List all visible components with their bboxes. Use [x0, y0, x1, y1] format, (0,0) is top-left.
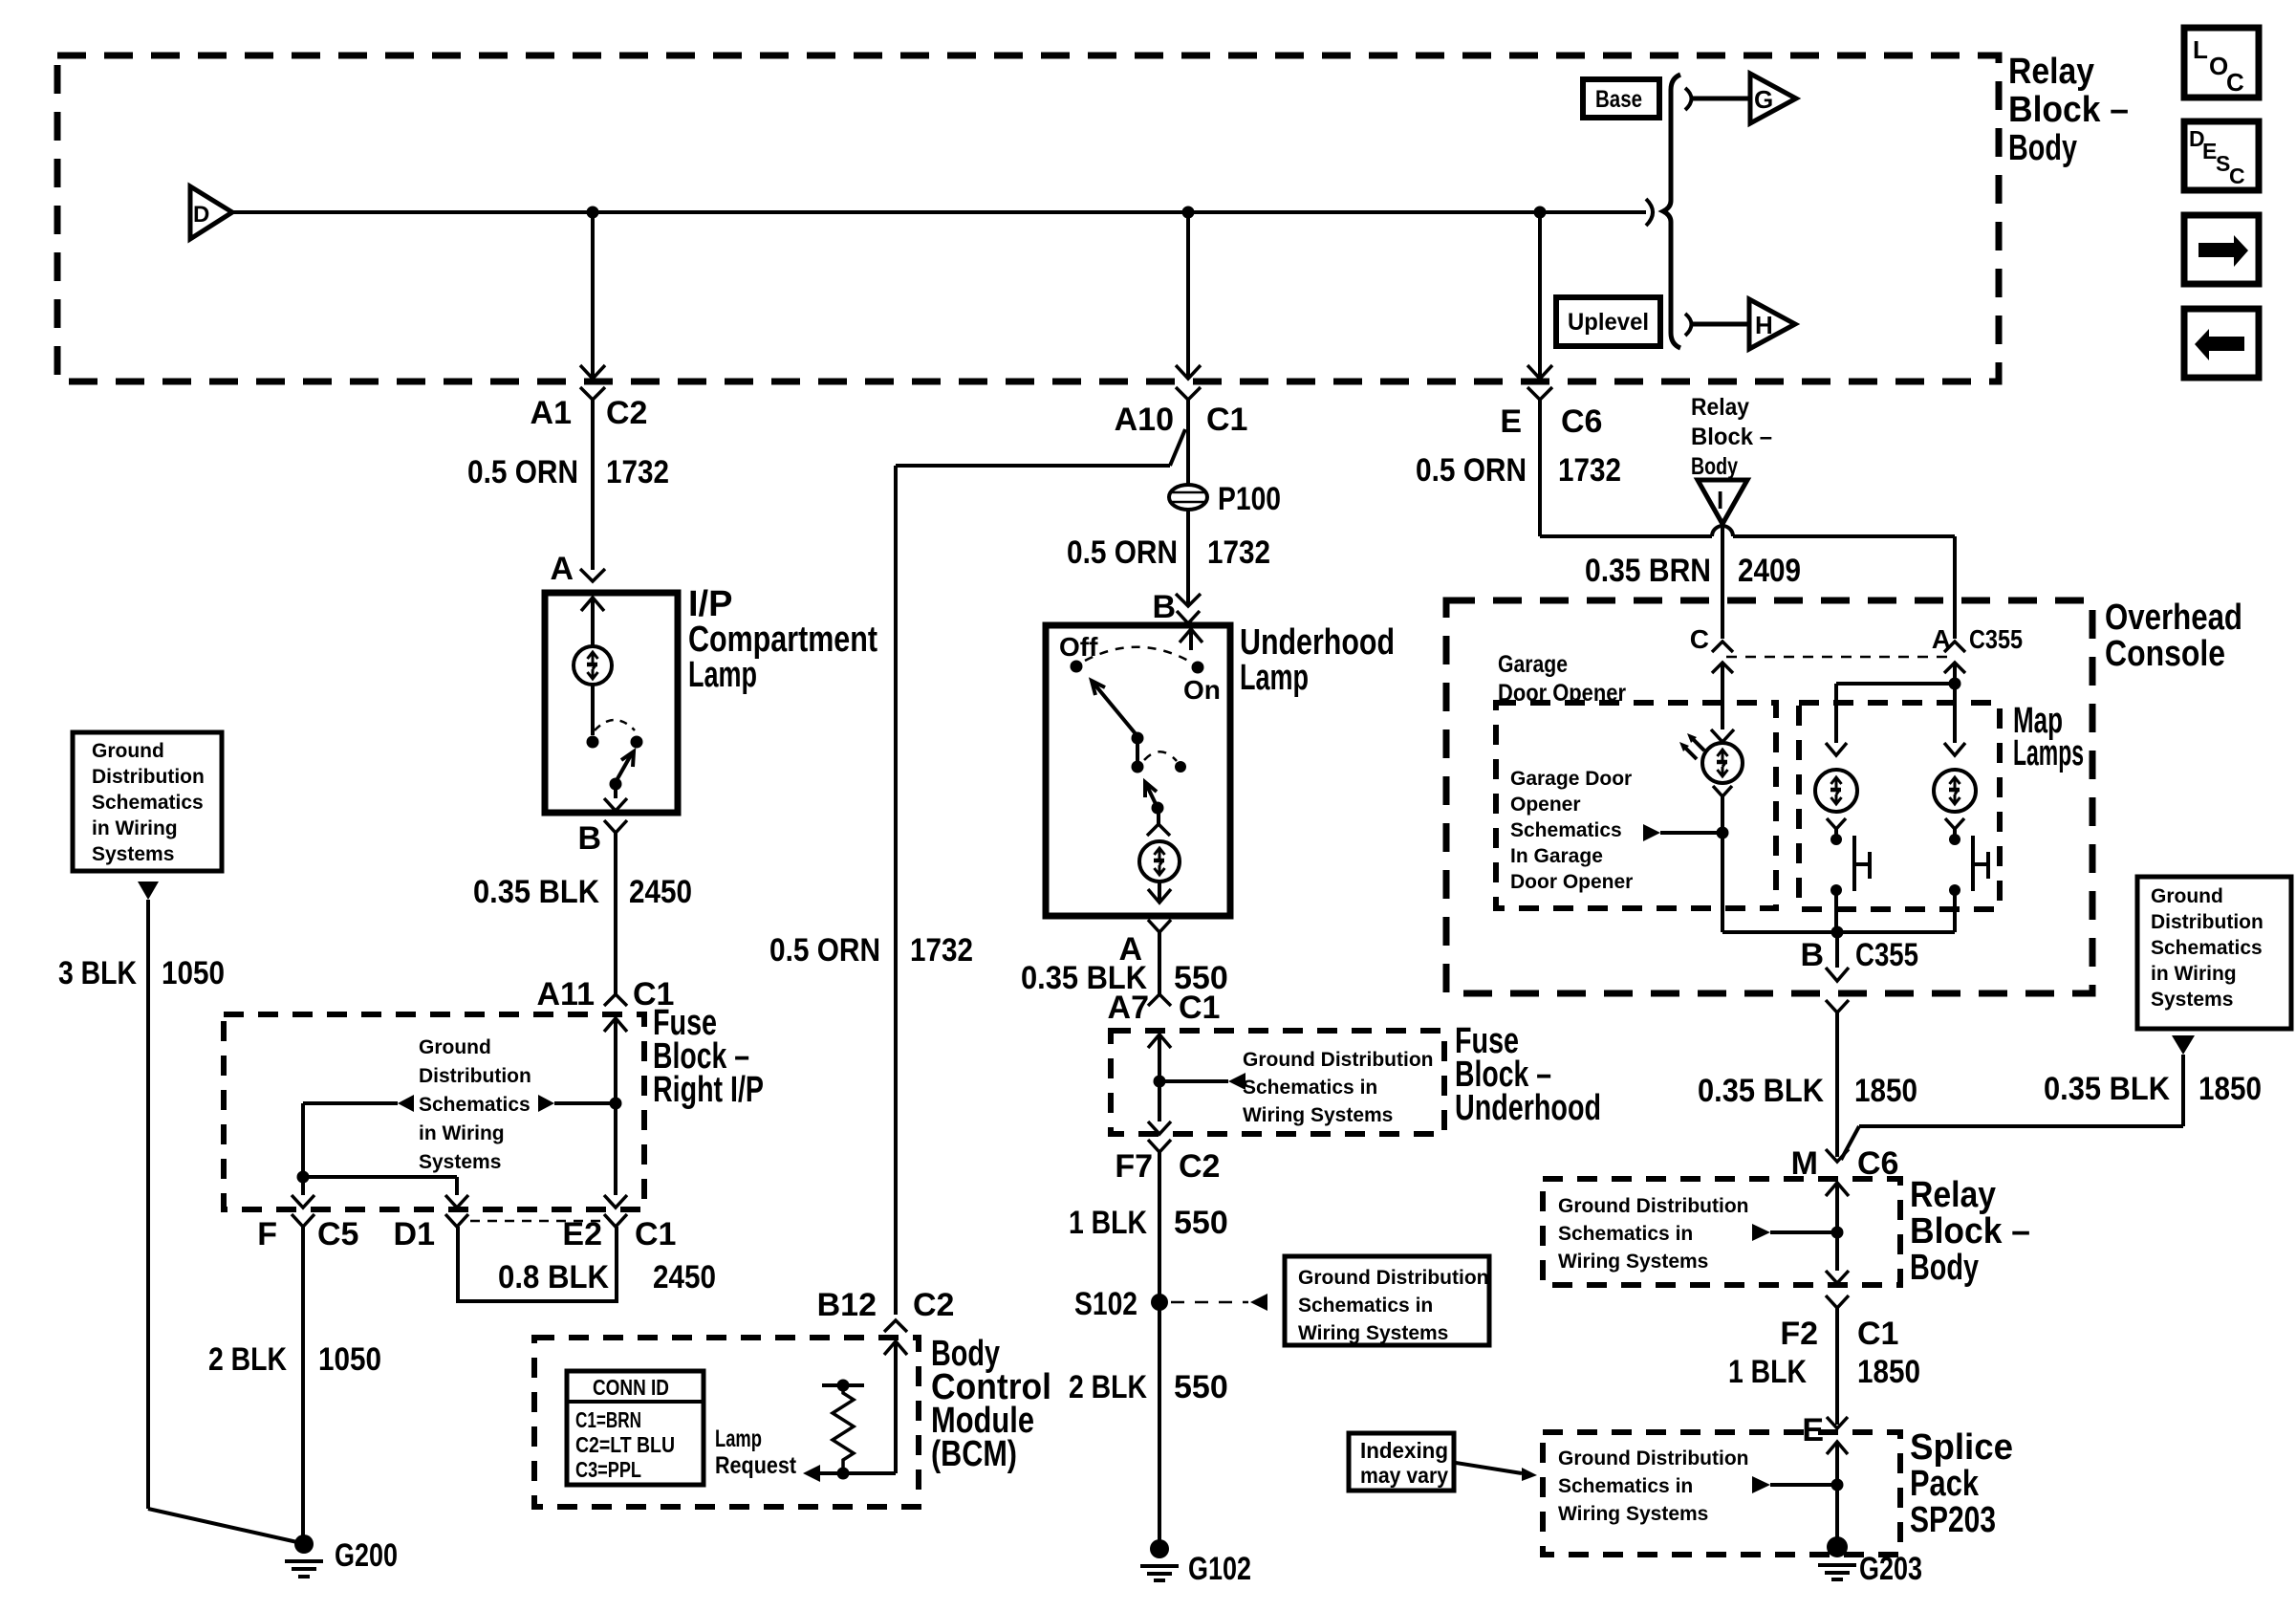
wire 0.35 BLK 550 — [1021, 932, 1228, 996]
connector A11/C1 — [537, 976, 675, 1032]
svg-text:Console: Console — [2105, 634, 2225, 674]
svg-text:C2: C2 — [913, 1287, 954, 1323]
label Underhood Lamp — [1240, 622, 1395, 698]
junction dot A10 — [1182, 207, 1195, 219]
label Splice Pack SP203 — [1910, 1427, 2013, 1540]
wire 0.5 ORN 1732 (underhood) — [1067, 508, 1270, 606]
nav arrow left box — [2184, 309, 2259, 378]
arrow indexing to splice pack — [1456, 1463, 1537, 1481]
housing symbol left — [1854, 836, 1870, 891]
connector B/C355 — [1800, 932, 1918, 1012]
ground G200 — [285, 1535, 398, 1577]
svg-text:Wiring Systems: Wiring Systems — [1298, 1322, 1448, 1344]
DESC nav box — [2184, 121, 2259, 190]
switch underhood off/on — [1059, 632, 1221, 815]
note box ground distribution (S102) — [1285, 1256, 1489, 1345]
label Fuse Block Underhood — [1455, 1021, 1601, 1128]
wire M inside relay block — [1826, 1183, 1849, 1283]
svg-text:2 BLK: 2 BLK — [1069, 1369, 1147, 1405]
svg-text:Lamps: Lamps — [2013, 733, 2084, 773]
lamp garage door opener — [1679, 729, 1743, 932]
svg-text:Ground: Ground — [419, 1036, 491, 1058]
label Relay Block Body (I) — [1691, 394, 1772, 480]
svg-text:3 BLK: 3 BLK — [58, 955, 137, 991]
node I triangle — [1698, 480, 1747, 524]
svg-text:2409: 2409 — [1738, 553, 1801, 589]
pointer splice pack note — [1752, 1476, 1844, 1493]
svg-text:A7: A7 — [1108, 990, 1149, 1026]
lamp map left — [1815, 743, 1857, 845]
svg-text:Lamp: Lamp — [688, 655, 757, 695]
node D triangle — [190, 186, 232, 239]
svg-text:C: C — [2229, 163, 2245, 188]
svg-text:C355: C355 — [1969, 624, 2023, 654]
svg-text:Distribution: Distribution — [2151, 911, 2264, 933]
svg-text:Systems: Systems — [92, 843, 174, 865]
fuse block underhood dashed box — [1111, 1031, 1444, 1134]
svg-text:C1: C1 — [635, 1216, 676, 1252]
svg-text:Garage Door: Garage Door — [1510, 768, 1632, 790]
note box ground distribution (left) — [73, 732, 222, 900]
junction dot E — [1534, 207, 1547, 219]
splice S102 — [1074, 1286, 1267, 1322]
connector A of IP lamp — [550, 551, 605, 587]
connector B of IP lamp — [577, 820, 627, 857]
connector A7/C1 — [1108, 990, 1221, 1048]
svg-text:Schematics in: Schematics in — [1558, 1223, 1693, 1245]
label Relay Block Body top right — [2008, 52, 2129, 168]
svg-text:Schematics in: Schematics in — [1558, 1475, 1693, 1497]
svg-text:1050: 1050 — [318, 1341, 381, 1378]
note ground distribution (splice pack) — [1558, 1448, 1748, 1525]
connector A10/C1 — [1115, 387, 1248, 438]
svg-text:G203: G203 — [1859, 1551, 1922, 1587]
svg-text:1732: 1732 — [606, 454, 669, 490]
connector B12/C2 — [817, 1287, 955, 1355]
connector A (C355) — [1932, 624, 2023, 684]
pin B entry arrow — [1180, 629, 1202, 650]
note garage door opener schematics — [1510, 768, 1633, 893]
connector B underhood — [1152, 589, 1201, 625]
label Relay Block Body (lower) — [1910, 1175, 2030, 1288]
map lamps dashed box — [1799, 703, 2000, 909]
ground G203 — [1818, 1536, 1922, 1587]
svg-text:B: B — [1152, 589, 1176, 625]
svg-text:in Wiring: in Wiring — [92, 817, 178, 839]
svg-text:Wiring Systems: Wiring Systems — [1558, 1251, 1708, 1273]
wire map left ground — [1830, 884, 1842, 932]
grommet P100 — [1169, 481, 1281, 517]
svg-text:Right I/P: Right I/P — [653, 1070, 764, 1110]
svg-text:Pack: Pack — [1910, 1464, 1980, 1504]
wire main bus — [232, 210, 1646, 214]
label I/P Compartment Lamp — [688, 584, 877, 695]
underhood lamp box — [1046, 625, 1230, 916]
wire A10 to P100 — [1186, 400, 1190, 486]
connector F2/C1 — [1780, 1295, 1898, 1352]
svg-text:B: B — [577, 820, 601, 857]
svg-text:C: C — [1690, 624, 1709, 654]
wire inside fuse block underhood — [1148, 1034, 1171, 1134]
svg-text:C2: C2 — [1179, 1148, 1220, 1185]
svg-text:B12: B12 — [817, 1287, 877, 1323]
svg-text:P100: P100 — [1218, 481, 1281, 517]
svg-text:Wiring Systems: Wiring Systems — [1243, 1104, 1393, 1126]
resistor lamp request — [822, 1380, 864, 1480]
wire D1 inside fuse block — [303, 1177, 468, 1208]
wire 1 BLK 1850 — [1728, 1308, 1920, 1425]
svg-text:Opener: Opener — [1510, 794, 1581, 816]
svg-text:I/P: I/P — [688, 584, 732, 624]
svg-text:Distribution: Distribution — [92, 766, 205, 788]
svg-text:0.35 BLK: 0.35 BLK — [2044, 1071, 2170, 1107]
svg-text:1 BLK: 1 BLK — [1069, 1205, 1147, 1241]
connector F/C5 — [257, 1214, 358, 1252]
svg-text:0.35 BRN: 0.35 BRN — [1585, 553, 1711, 589]
label Body Control Module BCM — [931, 1334, 1051, 1474]
svg-text:Compartment: Compartment — [688, 620, 877, 660]
splice pack dashed box — [1543, 1432, 1900, 1555]
note ground distribution (relay block) — [1558, 1195, 1748, 1273]
svg-text:C3=PPL: C3=PPL — [575, 1457, 641, 1482]
svg-text:Body: Body — [2008, 128, 2077, 168]
wire 0.35 BLK 2450 — [473, 833, 692, 994]
svg-text:Door Opener: Door Opener — [1498, 680, 1626, 707]
svg-text:Relay: Relay — [2008, 52, 2094, 92]
svg-text:C5: C5 — [317, 1216, 358, 1252]
relay Base box — [1583, 79, 1659, 118]
svg-text:may vary: may vary — [1360, 1463, 1448, 1488]
svg-text:Door Opener: Door Opener — [1510, 871, 1633, 893]
note ground distribution (underhood box) — [1159, 1049, 1433, 1126]
svg-text:1732: 1732 — [1558, 452, 1621, 489]
svg-text:550: 550 — [1174, 1205, 1228, 1241]
wire A10 drop — [1176, 212, 1201, 379]
wire 0.35 BLK 1850 (right branch) — [1841, 1055, 2262, 1160]
svg-text:G: G — [1754, 85, 1773, 114]
svg-text:Systems: Systems — [2151, 989, 2233, 1011]
svg-text:0.35 BLK: 0.35 BLK — [473, 874, 599, 910]
svg-text:0.35 BLK: 0.35 BLK — [1698, 1073, 1824, 1109]
housing symbol right — [1973, 836, 1988, 891]
svg-text:0.5 ORN: 0.5 ORN — [1416, 452, 1527, 489]
svg-text:C1: C1 — [1206, 402, 1247, 438]
wire 0.5 ORN 1732 (E) — [1416, 400, 1621, 536]
connector A1/C2 — [531, 387, 648, 431]
wire lamp request to B12 — [803, 1341, 896, 1482]
svg-text:0.5 ORN: 0.5 ORN — [769, 932, 880, 969]
pointer right (right IP box) — [538, 1095, 616, 1112]
wire A11 inside fuse block — [604, 1018, 627, 1208]
wire F inside fuse block — [292, 1103, 314, 1208]
overhead console dashed box — [1446, 600, 2092, 993]
svg-text:C355: C355 — [1855, 937, 1918, 973]
svg-text:E: E — [1500, 403, 1522, 440]
svg-text:D: D — [193, 202, 209, 228]
svg-text:B: B — [1800, 937, 1824, 973]
svg-text:G200: G200 — [335, 1537, 398, 1574]
svg-text:Schematics in: Schematics in — [1298, 1295, 1433, 1317]
bus end hook — [1646, 199, 1653, 226]
svg-text:Underhood: Underhood — [1455, 1088, 1601, 1128]
switch IP — [587, 685, 643, 811]
relay block body lower dashed box — [1543, 1179, 1900, 1285]
svg-text:Ground Distribution: Ground Distribution — [1558, 1448, 1748, 1469]
svg-text:Lamp: Lamp — [715, 1426, 762, 1452]
connector E splice pack — [1802, 1412, 1848, 1448]
relay Uplevel box — [1556, 297, 1660, 346]
pointer garage door opener note — [1643, 824, 1722, 841]
svg-text:1850: 1850 — [2199, 1071, 2262, 1107]
connector C (C355) — [1690, 624, 1733, 729]
wire 3 BLK 1050 — [58, 900, 297, 1542]
svg-text:in Wiring: in Wiring — [419, 1122, 505, 1144]
brace — [1663, 75, 1680, 348]
svg-text:A: A — [550, 551, 574, 587]
svg-text:C1: C1 — [1179, 990, 1220, 1026]
svg-text:2450: 2450 — [629, 874, 692, 910]
nav arrow right box — [2184, 215, 2259, 284]
svg-text:Body: Body — [1910, 1248, 1979, 1288]
svg-text:1850: 1850 — [1857, 1354, 1920, 1390]
svg-text:Schematics: Schematics — [92, 792, 204, 814]
connector hook G — [1685, 88, 1692, 110]
connector face dashed D1-E2 — [470, 1220, 602, 1223]
svg-text:A1: A1 — [531, 395, 572, 431]
svg-text:Ground Distribution: Ground Distribution — [1298, 1267, 1488, 1289]
BCM dashed box — [534, 1338, 919, 1507]
svg-text:S102: S102 — [1074, 1286, 1137, 1322]
lamp map right — [1934, 743, 1976, 845]
junction dot A11 wire — [610, 1098, 622, 1110]
svg-text:H: H — [1755, 311, 1773, 339]
svg-text:C2=LT BLU: C2=LT BLU — [575, 1432, 675, 1457]
indexing may vary box — [1349, 1433, 1454, 1491]
junction dot A1 — [587, 207, 599, 219]
svg-text:2 BLK: 2 BLK — [208, 1341, 287, 1378]
svg-text:C: C — [2226, 68, 2244, 97]
svg-text:Request: Request — [715, 1452, 797, 1479]
wire 2 BLK 1050 — [208, 1227, 381, 1540]
connector F7/C2 — [1115, 1140, 1220, 1185]
connector D1 — [394, 1214, 468, 1252]
svg-text:Splice: Splice — [1910, 1427, 2013, 1468]
connector E/C6 — [1500, 387, 1602, 440]
svg-text:1050: 1050 — [162, 955, 225, 991]
wire console feed with hop — [1540, 526, 1955, 639]
wire 0.35 BLK 1850 (console ground) — [1698, 1012, 1917, 1157]
note box ground distribution (top right) — [2137, 877, 2291, 1055]
svg-text:F: F — [257, 1216, 277, 1252]
connector hook H — [1685, 314, 1692, 336]
svg-text:in Wiring: in Wiring — [2151, 963, 2237, 985]
wire map lamp feed — [1836, 678, 1961, 744]
lamp underhood bulb — [1139, 808, 1180, 903]
connector E2/C1 — [562, 1214, 676, 1252]
svg-text:Garage: Garage — [1498, 651, 1568, 678]
wire 2 BLK 550 — [1069, 1369, 1228, 1405]
svg-text:Block –: Block – — [2008, 90, 2129, 130]
pointer relay block note — [1752, 1224, 1844, 1241]
svg-text:Underhood: Underhood — [1240, 622, 1395, 663]
svg-text:Wiring Systems: Wiring Systems — [1558, 1503, 1708, 1525]
svg-text:Uplevel: Uplevel — [1568, 309, 1649, 336]
note ground distribution (right IP) — [419, 1036, 531, 1173]
svg-text:SP203: SP203 — [1910, 1500, 1996, 1540]
svg-text:Ground Distribution: Ground Distribution — [1243, 1049, 1433, 1071]
svg-text:C2: C2 — [606, 395, 647, 431]
svg-text:Lamp: Lamp — [1240, 658, 1309, 698]
pointer left (right IP box) — [303, 1095, 414, 1112]
svg-text:Schematics in: Schematics in — [1243, 1077, 1377, 1099]
connector face dashed C355 — [1726, 656, 1951, 659]
wire map right ground — [1949, 884, 1960, 932]
svg-text:CONN ID: CONN ID — [593, 1375, 669, 1400]
svg-text:Relay: Relay — [1691, 394, 1749, 421]
wire H stub — [1693, 322, 1748, 327]
connector M/C6 — [1791, 1145, 1899, 1196]
svg-text:1 BLK: 1 BLK — [1728, 1354, 1807, 1390]
relay block body outer dashed box — [57, 55, 1999, 381]
label Lamp Request — [715, 1426, 797, 1479]
svg-text:C1: C1 — [1857, 1316, 1898, 1352]
svg-text:L: L — [2193, 35, 2208, 64]
svg-text:Ground: Ground — [2151, 885, 2223, 907]
svg-text:In Garage: In Garage — [1510, 845, 1603, 867]
connector A underhood — [1118, 920, 1171, 968]
svg-text:Ground: Ground — [92, 740, 164, 762]
node G triangle — [1750, 74, 1796, 123]
wire G stub — [1693, 97, 1749, 101]
pin A entry arrow — [581, 598, 604, 646]
CONN ID table — [567, 1371, 704, 1485]
svg-text:C1=BRN: C1=BRN — [575, 1407, 641, 1432]
svg-text:I: I — [1717, 486, 1723, 514]
svg-text:Base: Base — [1595, 86, 1642, 113]
svg-text:C6: C6 — [1561, 403, 1602, 440]
svg-text:Schematics: Schematics — [1510, 819, 1622, 841]
svg-text:1732: 1732 — [1207, 534, 1270, 571]
IP compartment lamp box — [545, 593, 678, 813]
label Overhead Console — [2105, 598, 2242, 674]
wire splice pack — [1827, 1442, 1848, 1539]
label Fuse Block Right IP — [653, 1003, 764, 1110]
svg-text:0.5 ORN: 0.5 ORN — [467, 454, 578, 490]
wire 1 BLK 550 — [1069, 1152, 1228, 1543]
svg-text:Schematics: Schematics — [2151, 937, 2263, 959]
svg-text:(BCM): (BCM) — [931, 1434, 1017, 1474]
svg-text:Overhead: Overhead — [2105, 598, 2242, 638]
svg-text:A10: A10 — [1115, 402, 1174, 438]
ground G102 — [1140, 1539, 1251, 1587]
svg-text:G102: G102 — [1188, 1551, 1251, 1587]
LOC nav box — [2184, 28, 2259, 98]
svg-text:2450: 2450 — [653, 1259, 716, 1295]
svg-text:0.5 ORN: 0.5 ORN — [1067, 534, 1178, 571]
svg-text:A11: A11 — [537, 976, 596, 1012]
svg-text:Schematics: Schematics — [419, 1094, 531, 1116]
label Garage Door Opener — [1498, 651, 1626, 707]
wire I to C — [1585, 524, 1801, 639]
svg-text:Block –: Block – — [1910, 1211, 2030, 1252]
svg-text:Block –: Block – — [1691, 424, 1772, 450]
svg-text:A: A — [1932, 624, 1951, 654]
label Map Lamps — [2013, 701, 2084, 773]
wire 0.8 BLK 2450 jumper — [458, 1227, 716, 1301]
svg-text:1732: 1732 — [910, 932, 973, 969]
svg-text:Indexing: Indexing — [1360, 1438, 1448, 1463]
svg-text:Systems: Systems — [419, 1151, 501, 1173]
svg-text:Body: Body — [1691, 453, 1738, 480]
svg-text:Ground Distribution: Ground Distribution — [1558, 1195, 1748, 1217]
wire E drop — [1527, 212, 1552, 379]
svg-text:Relay: Relay — [1910, 1175, 1996, 1215]
svg-text:550: 550 — [1174, 1369, 1228, 1405]
svg-text:D1: D1 — [394, 1216, 435, 1252]
svg-text:0.8 BLK: 0.8 BLK — [498, 1259, 609, 1295]
svg-text:F7: F7 — [1115, 1148, 1153, 1185]
wire console ground bus — [1722, 890, 1955, 939]
svg-text:On: On — [1183, 675, 1221, 705]
wire 0.5 ORN 1732 (BCM riser) — [769, 429, 1185, 1315]
lamp IP bulb — [574, 646, 612, 685]
svg-text:Distribution: Distribution — [419, 1065, 531, 1087]
fuse block right IP dashed box — [224, 1014, 644, 1209]
node H triangle — [1749, 299, 1795, 349]
garage door opener dashed box — [1496, 703, 1776, 908]
svg-text:F2: F2 — [1780, 1316, 1818, 1352]
svg-text:1850: 1850 — [1854, 1073, 1917, 1109]
wire 0.5 ORN 1732 (A1) — [467, 400, 669, 570]
wire A1 drop — [580, 212, 605, 379]
